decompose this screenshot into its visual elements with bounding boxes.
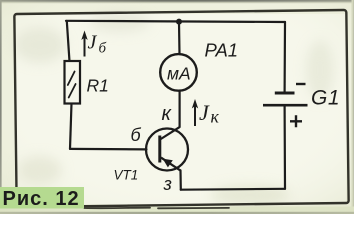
svg-text:J: J: [88, 32, 98, 54]
transistor VT1 collector lead: [160, 127, 180, 140]
polarity minus sign: [296, 83, 306, 85]
battery G1 positive plate (long): [263, 104, 308, 107]
wire R1 bottom to base corner: [70, 104, 72, 149]
polarity plus sign: [290, 115, 302, 127]
wire base horizontal: [70, 148, 147, 151]
svg-text:б: б: [99, 41, 107, 57]
svg-text:к: к: [162, 103, 173, 125]
svg-text:J: J: [199, 100, 210, 125]
transistor VT1 base bar: [158, 136, 161, 163]
current arrow Iб (base current direction): [81, 31, 87, 57]
resistor R1 body: [65, 61, 81, 104]
svg-text:VT1: VT1: [114, 168, 139, 183]
battery G1 negative plate (short): [275, 92, 295, 95]
wire left branch down to R1: [67, 21, 70, 62]
transistor VT1 envelope circle: [146, 129, 188, 171]
transistor VT1 emitter lead: [161, 158, 181, 171]
image edge shading top: [0, 0, 354, 2]
transistor VT1: [146, 127, 188, 171]
wire emitter vertical: [179, 170, 182, 189]
wire battery bottom: [284, 105, 287, 189]
image edge shading bottom: [0, 207, 354, 215]
wire battery top: [284, 22, 287, 92]
resistor R1: [65, 61, 81, 104]
svg-text:к: к: [211, 107, 220, 127]
node junction dot: [176, 19, 182, 25]
svg-text:з: з: [163, 174, 172, 194]
transistor VT1 emitter arrowhead (PNP): [163, 159, 173, 168]
svg-text:G1: G1: [311, 87, 340, 110]
wire collector vertical: [179, 91, 181, 127]
current arrow Iк (collector current direction): [192, 99, 198, 126]
wire top rail: [66, 21, 285, 22]
svg-text:б: б: [131, 125, 142, 145]
svg-text:PA1: PA1: [205, 40, 239, 61]
svg-text:R1: R1: [87, 76, 109, 96]
svg-text:Рис. 12: Рис. 12: [3, 188, 80, 210]
battery G1: [263, 84, 308, 127]
svg-text:мА: мА: [167, 64, 191, 84]
underline smear below frame: [84, 207, 229, 210]
ammeter PA1: [160, 54, 197, 91]
resistor R1 hatch slashes: [68, 72, 76, 98]
ammeter PA1 circle: [160, 54, 197, 91]
image edge shading left: [0, 0, 2, 214]
frame border: [14, 10, 348, 207]
wire meter top: [178, 22, 181, 54]
wire bottom rail: [181, 188, 285, 191]
image edge shading right: [352, 0, 354, 214]
caption Рис. 12: [0, 187, 84, 210]
